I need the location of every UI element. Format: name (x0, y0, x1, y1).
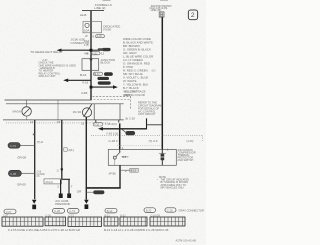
wire W3 to compressor box (119, 123, 121, 149)
bus line L1 (5, 99, 92, 101)
ground G1 bolt (32, 205, 36, 210)
note block (157, 175, 189, 190)
pill outline Y-16 (93, 123, 102, 126)
ignition switch label (149, 5, 171, 12)
junction dot at right branch (90, 86, 93, 89)
link line G (21, 172, 34, 174)
svg-text:A-06: A-06 (97, 35, 103, 38)
svg-text:B-13: B-13 (131, 169, 137, 172)
right middle text block (138, 101, 161, 117)
tiny note right of W6 (37, 171, 46, 178)
svg-text:2f: 2f (85, 34, 88, 38)
bottom oval C-73b (68, 209, 80, 214)
wire W5 ground drop (85, 117, 87, 200)
svg-text:AND SWITCH: AND SWITCH (178, 159, 194, 162)
wire W2 ignition feed (161, 17, 163, 149)
svg-text:21: 21 (81, 121, 85, 125)
svg-text:GRAY CONNECTOR: GRAY CONNECTOR (179, 209, 204, 213)
connector B1 (2, 217, 43, 226)
branch wire left to headlight relay (61, 49, 92, 51)
big pill G (8, 170, 21, 176)
pill dark row 2 (104, 72, 113, 76)
compressor split bar (50, 178, 70, 180)
label dedicated fuse (103, 25, 121, 32)
relay coil slash (23, 108, 30, 115)
wire H4 horizontal run (86, 187, 121, 189)
svg-text:Y-16 2(1): Y-16 2(1) (105, 122, 117, 126)
svg-text:F-2 F5 FUSE 2-36 LINE A-05X: F-2 F5 FUSE 2-36 LINE A-05X F-2 F5 C-28 … (8, 228, 80, 232)
svg-text:C-07: C-07 (6, 210, 12, 214)
svg-text:*: * (157, 179, 158, 182)
svg-text:UNIT CIRCUIT: UNIT CIRCUIT (138, 112, 156, 116)
svg-text:UNIT: UNIT (124, 93, 131, 97)
L-wire from note to W2 (147, 124, 162, 126)
arrowhead left 2 (63, 79, 68, 83)
svg-text:B-32: B-32 (95, 73, 101, 76)
tiny dot on W6 (33, 134, 34, 136)
svg-text:15: 15 (57, 120, 61, 124)
compressor lead 2 (68, 179, 70, 193)
svg-text:12: 12 (101, 52, 105, 56)
svg-text:AND A/C UNIT: AND A/C UNIT (39, 74, 57, 78)
relay coil top stub (26, 100, 28, 107)
svg-text:MG SW: MG SW (73, 111, 82, 114)
svg-text:B-13: B-13 (107, 209, 113, 213)
compressor control box (108, 149, 176, 165)
svg-text:C-73: C-73 (10, 144, 16, 148)
dotted line under band (6, 122, 110, 124)
joint connector note (71, 38, 90, 45)
fusible link label (94, 3, 112, 10)
ignition connector symbol (159, 12, 164, 17)
svg-text:2b C-28: 2b C-28 (125, 117, 135, 121)
svg-text:(2-36): (2-36) (187, 139, 194, 143)
bottom oval C-07 (4, 209, 16, 214)
relay contact arm (84, 104, 92, 117)
faint dotted separator (117, 145, 162, 147)
svg-text:B-13 C-18 LF L-2 C-28 COMPR: B-13 C-18 LF L-2 C-28 COMPR 2 C-28 GRD F… (104, 228, 169, 232)
link to B-13 (120, 169, 130, 171)
arrowhead left (98, 127, 103, 131)
branch wire right with arrow (91, 86, 115, 88)
svg-text:(B): (B) (152, 69, 156, 73)
svg-text:BLOCK: BLOCK (101, 61, 111, 65)
dark pill on W5 (86, 191, 93, 193)
svg-text:FUSE: FUSE (103, 28, 111, 32)
svg-text:CONNECTOR: CONNECTOR (71, 41, 90, 45)
connector pill dark 1b (98, 48, 104, 51)
connector pill dark 1 (102, 48, 111, 51)
svg-text:2a-B: 2a-B (80, 13, 86, 17)
pressure switch symbol (113, 156, 116, 159)
fuse symbol (85, 23, 89, 27)
svg-text:(P-B): (P-B) (109, 172, 116, 176)
dotted corner down (201, 136, 203, 142)
legend text column (123, 37, 153, 97)
relay coil circle left (22, 107, 31, 116)
connector B3 (68, 217, 102, 226)
bottom oval B-13 (105, 208, 117, 213)
pill dark row 3 (98, 81, 111, 84)
svg-text:2: 2 (191, 12, 195, 19)
left pin texts on W1 (84, 39, 89, 56)
compressor box note (178, 149, 196, 162)
arrowhead left (57, 49, 62, 52)
A/C control unit dashed corner (93, 95, 131, 97)
arrow wire riser (146, 118, 148, 129)
connector B4 (104, 217, 118, 226)
svg-text:Y-16: Y-16 (94, 123, 99, 126)
fuse F dedicated box (83, 22, 102, 33)
svg-text:2(1): 2(1) (68, 148, 73, 152)
fusible link underline (82, 10, 104, 12)
svg-text:Y-16 1(1): Y-16 1(1) (106, 131, 118, 135)
svg-text:PRESSOR: PRESSOR (55, 202, 71, 206)
svg-text:MAGN: MAGN (13, 110, 21, 114)
svg-text:12: 12 (30, 120, 34, 124)
svg-text:B-16: B-16 (80, 73, 87, 77)
link line C-73 (20, 144, 35, 146)
pill outline B-32 (94, 72, 103, 75)
band divider wire (57, 100, 59, 120)
svg-text:C-08: C-08 (10, 172, 16, 176)
relay coil stub (26, 116, 28, 120)
wire W4 box bottom drop (119, 165, 121, 188)
ground G2 bolt (85, 204, 89, 209)
wire W6 left relay drop (34, 120, 36, 199)
junction block J/B box (82, 59, 99, 71)
top edge crop marks (103, 0, 111, 1)
svg-text:C-73: C-73 (69, 209, 75, 213)
svg-text:C-28: C-28 (54, 209, 60, 213)
bottom oval C-28 (53, 209, 65, 214)
branch wire left to A/C control (67, 79, 91, 81)
left middle text block (39, 58, 77, 78)
diagonal link (122, 129, 126, 132)
svg-text:GR-05: GR-05 (17, 182, 26, 186)
branch right pills (91, 49, 100, 51)
junction dot on W1 at branch (90, 49, 93, 52)
junction dot on W7 (61, 168, 63, 170)
label A/C control unit (124, 90, 138, 97)
terminal block 1 (59, 194, 63, 199)
svg-text:GR-08: GR-08 (17, 156, 26, 160)
svg-text:X-16: X-16 (82, 80, 89, 84)
arrow wire from note, pointing left (102, 128, 147, 130)
svg-text:C-18 4: C-18 4 (109, 139, 118, 143)
svg-text:(7) 2-3: (7) 2-3 (149, 139, 158, 143)
inner box divider left (93, 104, 95, 120)
connector B6 (150, 217, 185, 226)
inner box divider right (119, 104, 121, 120)
terminal block 2 (67, 194, 71, 199)
svg-text:(7)-0: (7)-0 (37, 140, 44, 144)
relay contact circle (82, 108, 91, 117)
ground G1 arrow (32, 200, 37, 204)
dark pill C-28 (126, 131, 136, 135)
thermal protector symbol (161, 149, 163, 165)
connector B5 (120, 217, 147, 226)
wire W1 main feed (90, 11, 92, 101)
svg-text:C-18: C-18 (167, 208, 173, 212)
compressor lead 1 (60, 179, 62, 193)
label junction block (101, 58, 116, 65)
ground G2 arrow (84, 200, 89, 204)
pin tick 2 (95, 120, 97, 123)
svg-text:10A: 10A (84, 28, 89, 32)
svg-text:A-05: A-05 (92, 52, 98, 55)
pill outline C-73 (8, 143, 20, 149)
svg-text:J/C(2): J/C(2) (45, 180, 53, 184)
relay band top edge (6, 103, 124, 105)
pill dark row 2b (97, 77, 109, 80)
svg-text:A2TB-010-42-AB: A2TB-010-42-AB (176, 238, 197, 242)
wire W7 compressor feed (61, 120, 63, 179)
svg-text:LINE (2): LINE (2) (94, 6, 105, 10)
relay band bottom edge (3, 119, 124, 121)
dotted line right (91, 135, 202, 137)
bottom oval B-32 (144, 208, 156, 213)
label 1-2(1) (64, 148, 67, 151)
label A/C compressor (55, 199, 71, 206)
svg-text:TO HEADLIGHT RELAY: TO HEADLIGHT RELAY (30, 50, 63, 54)
badge 2 (188, 10, 197, 20)
svg-text:MPI VEHICLES ONLY: MPI VEHICLES ONLY (161, 186, 185, 189)
J/C(2) box (44, 179, 62, 184)
arrowhead right (113, 85, 118, 89)
pin tick 1 (118, 120, 120, 123)
bottom oval C-18 (165, 208, 176, 212)
A/C control unit dashed corner lower (94, 99, 131, 101)
J/B pin square (90, 58, 92, 60)
svg-text:B-32: B-32 (146, 209, 152, 213)
svg-text:3-4B: 3-4B (81, 91, 87, 95)
connector B2 (45, 217, 66, 226)
